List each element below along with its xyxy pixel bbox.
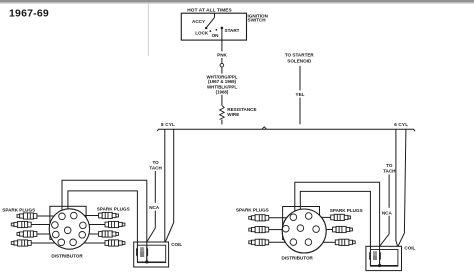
wire: [380, 216, 390, 247]
spark plug: [331, 214, 351, 220]
wire left distributor cap center to coil (goes to coil - terminal): [62, 180, 147, 262]
svg-text:TO: TO: [152, 160, 159, 165]
svg-text:SWITCH: SWITCH: [248, 18, 267, 23]
right distributor cap: [282, 209, 326, 253]
wire left distributor to coil winding: [68, 191, 137, 245]
wire spark plug lead: [31, 242, 55, 244]
spark plug: [335, 239, 355, 245]
wire main ignition feed bus: [157, 129, 415, 131]
right distributor cap terminal: [305, 239, 312, 246]
wire spark plug lead: [269, 241, 286, 243]
left distributor cap: [49, 209, 89, 249]
spark plug: [17, 213, 37, 219]
wire: [221, 58, 223, 63]
wire: [221, 120, 223, 125]
left distributor housing: [50, 206, 86, 239]
spark plug: [105, 221, 125, 227]
wire spark plug lead: [326, 229, 332, 231]
wire right distributor to coil negative: [295, 182, 380, 265]
spark plug: [99, 212, 119, 218]
spark plug: [99, 231, 119, 237]
right coil inner body: [370, 250, 398, 267]
svg-text:DISTRIBUTOR: DISTRIBUTOR: [282, 256, 314, 261]
left coil primary winding: [136, 245, 147, 262]
svg-text:6 CYL: 6 CYL: [394, 122, 408, 127]
svg-text:ACCY: ACCY: [192, 19, 205, 24]
contact START: [221, 27, 224, 30]
left distributor center terminal: [64, 227, 71, 234]
wire: [147, 211, 156, 242]
wire spark plug lead: [31, 224, 50, 226]
svg-text:SPARK PLUGS: SPARK PLUGS: [330, 208, 363, 213]
svg-text:COIL: COIL: [404, 245, 415, 250]
wire spark plug lead: [37, 215, 55, 217]
svg-text:ON: ON: [212, 33, 220, 38]
contact ON: [216, 29, 218, 31]
svg-text:DISTRIBUTOR: DISTRIBUTOR: [51, 254, 83, 259]
spark plug: [11, 221, 31, 227]
svg-text:SOLENOID: SOLENOID: [287, 58, 312, 63]
wire spark plug lead: [89, 233, 98, 235]
spark plug: [333, 226, 353, 232]
wire to tach NCA (right): [388, 174, 390, 207]
left distributor cap terminal: [70, 239, 77, 246]
spark plug: [11, 240, 31, 246]
right distributor cap terminal: [305, 213, 312, 220]
svg-text:START: START: [225, 28, 240, 33]
left distributor cap terminal: [58, 239, 65, 246]
wire spark plug lead: [322, 216, 331, 218]
left distributor cap terminal: [52, 222, 59, 229]
left coil bottom conductor: [137, 261, 165, 263]
svg-text:YEL: YEL: [296, 92, 305, 97]
svg-text:NCA: NCA: [149, 205, 160, 210]
wire: [221, 95, 223, 106]
svg-text:(1968): (1968): [216, 89, 229, 94]
wire bus drop B to left coil: [165, 129, 173, 242]
svg-text:1967-69: 1967-69: [9, 8, 49, 20]
left distributor cap terminal: [79, 232, 86, 239]
connector C: [220, 63, 224, 67]
right distributor cap terminal: [283, 225, 290, 232]
svg-text:LOCK: LOCK: [195, 30, 209, 35]
resistance wire (resistor): [220, 105, 225, 119]
right distributor cap terminal: [313, 226, 320, 233]
svg-text:WIRE: WIRE: [227, 112, 239, 117]
wire: [221, 67, 223, 74]
wire spark plug lead: [84, 215, 98, 217]
ignition switch box: [181, 13, 246, 40]
right distributor cap terminal: [290, 214, 297, 221]
svg-text:TO STARTER: TO STARTER: [285, 53, 315, 58]
left coil inner body: [137, 245, 165, 262]
wire bus drop B to right coil: [398, 129, 406, 246]
left distributor cap terminal: [71, 212, 78, 219]
wire right distributor to coil winding: [300, 191, 370, 249]
right distributor housing: [283, 207, 320, 240]
wire spark plug lead: [37, 233, 50, 235]
wire spark plug lead: [89, 224, 105, 226]
svg-text:SPARK PLUGS: SPARK PLUGS: [236, 207, 269, 212]
wire spark plug lead: [269, 229, 283, 231]
right distributor center terminal: [297, 225, 304, 232]
svg-text:TACH: TACH: [149, 166, 162, 171]
svg-text:TACH: TACH: [383, 169, 396, 174]
right coil primary winding: [370, 250, 381, 266]
wire YEL: [299, 66, 301, 91]
ignition switch lever: [206, 17, 214, 27]
svg-text:PNK: PNK: [217, 53, 227, 58]
svg-text:COIL: COIL: [171, 242, 182, 247]
left coil outer case: [134, 242, 169, 267]
svg-text:NCA: NCA: [382, 210, 393, 215]
wire PNK from ignition switch START: [221, 28, 223, 52]
wire spark plug lead: [323, 241, 335, 243]
spark plug: [249, 215, 269, 221]
spark plug: [17, 231, 37, 237]
right distributor cap terminal: [290, 239, 297, 246]
svg-text:8 CYL: 8 CYL: [161, 122, 175, 127]
left distributor cap terminal: [80, 222, 87, 229]
junction dot left coil negative: [145, 260, 148, 263]
wire spark plug lead: [269, 217, 287, 219]
svg-text:SPARK PLUGS: SPARK PLUGS: [97, 207, 130, 212]
spark plug: [249, 239, 269, 245]
svg-text:TO: TO: [386, 163, 393, 168]
svg-text:SPARK PLUGS: SPARK PLUGS: [2, 207, 35, 212]
wire bus drop A to right coil: [396, 129, 398, 246]
spark plug: [249, 227, 269, 233]
wire bus drop A to left coil: [164, 129, 166, 242]
contact LOCK: [209, 30, 211, 32]
left distributor cap terminal: [53, 231, 60, 238]
wire spark plug lead: [84, 242, 105, 244]
wire to tach NCA (left): [154, 171, 156, 203]
spark plug: [105, 240, 125, 246]
right coil bottom conductor: [370, 265, 397, 267]
wire: [299, 98, 301, 125]
junction dot right coil negative: [378, 264, 381, 267]
right coil outer case: [366, 246, 402, 270]
ignition switch battery feed stub: [214, 13, 216, 17]
splice junction hump: [262, 127, 267, 130]
left distributor cap terminal: [59, 213, 66, 220]
